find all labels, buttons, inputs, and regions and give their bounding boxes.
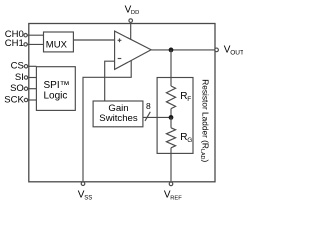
wire op-amp output to VOUT [151,49,215,51]
pin CS [11,61,28,72]
svg-text:OUT: OUT [230,50,243,57]
svg-text:SI: SI [15,72,24,83]
svg-text:G: G [187,137,192,144]
resistor RF [166,86,191,109]
op-amp A1 [115,31,152,69]
wire MUX output to op-amp noninverting input [73,39,114,41]
svg-text:DD: DD [131,10,139,16]
wire CS to SPI logic [28,65,37,67]
wire SI to SPI logic [28,77,37,79]
pin VDD [125,5,140,23]
pin CH1 [5,38,28,49]
svg-text:SS: SS [84,195,92,201]
wire ladder tap to RG [170,117,172,127]
pin SO [10,83,28,94]
IC boundary box [29,24,215,182]
SPI logic block U2 [36,67,75,111]
svg-text:8: 8 [146,101,151,111]
gain switches block U3 [93,101,143,127]
pin CH0 [5,29,28,40]
svg-text:SO: SO [10,83,24,94]
svg-text:Resistor Ladder (RLAD): Resistor Ladder (RLAD) [199,79,211,162]
MUX block U1 [44,32,74,52]
wire op-amp inverting input feedback to gain switches [105,61,115,101]
pin VSS [78,182,92,201]
wire op-amp VSS supply [83,61,131,182]
node ladder tap [169,115,174,120]
svg-text:SCK: SCK [4,94,24,105]
pin SI [15,72,28,83]
node output junction [169,48,174,53]
resistor RG [166,128,192,148]
pin VREF [164,182,182,201]
bus width slash [145,112,150,121]
wire SCK to SPI logic [28,99,37,101]
svg-text:F: F [187,96,191,103]
wire CH1 to MUX [27,43,43,45]
bus gain switches to ladder tap [143,116,171,118]
wire CH0 to MUX [27,34,43,36]
svg-text:REF: REF [170,195,182,201]
wire RG to VREF [170,148,172,181]
svg-text:Switches: Switches [99,113,138,124]
wire output node to RF [170,50,172,86]
pin VOUT [215,45,244,57]
pin SCK [4,94,27,105]
svg-text:CS: CS [11,61,24,72]
wire SO to SPI logic [28,88,37,90]
resistor ladder box [157,78,193,154]
wire RF to ladder tap [170,109,172,118]
svg-text:Logic: Logic [44,91,68,102]
svg-text:CH1: CH1 [5,38,24,49]
svg-text:MUX: MUX [46,39,68,50]
wire VDD to op-amp supply [130,23,132,40]
